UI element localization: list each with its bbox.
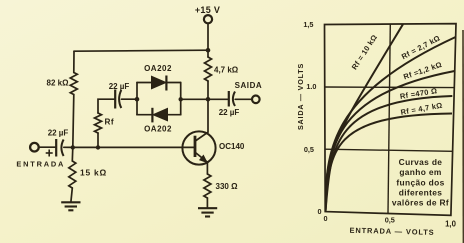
ground G1 (under 15k): [61, 202, 80, 210]
svg-text:SAIDA — VOLTS: SAIDA — VOLTS: [296, 63, 305, 130]
diode D2 OA202 (bottom, pointing left): [152, 108, 167, 123]
svg-text:22 µF: 22 µF: [219, 108, 240, 117]
resistor R 330: [204, 174, 211, 198]
svg-text:OC140: OC140: [219, 142, 245, 151]
wire node to output cap: [208, 98, 228, 100]
capacitor C top 22uF: [115, 90, 121, 109]
wire diode loop right bar: [180, 83, 182, 115]
svg-text:valôres de Rf: valôres de Rf: [392, 197, 449, 207]
svg-text:1,5: 1,5: [303, 20, 313, 29]
plus sign input polarity: [46, 150, 53, 157]
svg-text:diferentes: diferentes: [399, 187, 443, 197]
svg-text:15 kΩ: 15 kΩ: [80, 168, 107, 178]
svg-text:SAIDA: SAIDA: [235, 81, 263, 90]
svg-text:OA202: OA202: [144, 64, 172, 73]
terminal ENTRADA: [30, 143, 39, 152]
wire emitter to 330: [196, 153, 207, 174]
wire collector: [196, 99, 208, 140]
resistor R 82k: [70, 73, 77, 95]
svg-text:Rf: Rf: [105, 118, 115, 127]
capacitor C output 22uF: [229, 91, 235, 107]
wire +15V lead: [207, 23, 209, 50]
svg-text:1.0: 1.0: [306, 82, 316, 91]
ground G2 (under 330): [198, 208, 217, 216]
terminal +15V: [204, 15, 212, 23]
svg-text:ganho em: ganho em: [399, 167, 441, 177]
svg-text:22 µF: 22 µF: [109, 82, 130, 91]
transistor Q OC140: [182, 131, 215, 164]
svg-text:0,5: 0,5: [304, 145, 314, 154]
wire output cap to terminal: [235, 98, 252, 100]
wire 82k to base node: [73, 95, 74, 148]
graph plot border: [325, 24, 457, 216]
svg-text:função dos: função dos: [396, 177, 444, 187]
svg-text:0: 0: [317, 207, 321, 216]
svg-text:0,5: 0,5: [385, 216, 395, 225]
junction dot base node: [71, 145, 75, 149]
annotation box text Curvas de ganho: [392, 157, 449, 208]
svg-text:4,7 kΩ: 4,7 kΩ: [214, 66, 239, 75]
curve Rf 1,2k: [326, 71, 455, 212]
svg-text:330 Ω: 330 Ω: [216, 182, 239, 191]
wire diode bottom branch right: [168, 114, 181, 116]
wire diode top branch right: [167, 82, 181, 84]
wire diode loop to collector node: [181, 98, 208, 100]
svg-text:+15 V: +15 V: [195, 5, 220, 15]
svg-text:82 kΩ: 82 kΩ: [47, 79, 70, 88]
svg-text:OA202: OA202: [144, 125, 172, 134]
wire Rf top to cap: [98, 99, 114, 113]
curve Rf 4,7k: [326, 114, 453, 212]
wire 330 to ground: [206, 198, 208, 208]
junction dot diode loop left: [135, 97, 140, 102]
resistor R 15k: [69, 161, 76, 188]
curve Rf 470: [326, 96, 453, 212]
graph gridline horizontal 0,5: [325, 149, 453, 151]
svg-text:1,0: 1,0: [445, 219, 457, 228]
wire 4.7k top lead: [207, 50, 209, 57]
wire top cap to diode loop: [122, 98, 138, 100]
wire top rail: [74, 50, 208, 51]
junction dot collector node: [206, 97, 211, 102]
wire diode bottom branch left: [137, 114, 153, 116]
wire input terminal to cap: [39, 146, 55, 148]
junction dot Rf node: [96, 145, 100, 149]
svg-text:0: 0: [323, 214, 327, 223]
graph gridline horizontal 1.0: [325, 86, 455, 89]
diode D1 OA202 (top, pointing right): [152, 76, 167, 91]
junction dot diode loop right: [179, 97, 183, 101]
wire 4.7k to collector node: [207, 81, 209, 99]
terminal SAIDA: [252, 96, 260, 104]
resistor Rf: [95, 113, 102, 133]
wire base: [73, 146, 194, 148]
curve Rf 2,7k: [326, 37, 456, 212]
page edge dark line right: [462, 30, 464, 243]
svg-text:ENTRADA: ENTRADA: [16, 160, 65, 169]
graph gridline vertical 0,5: [388, 24, 390, 213]
wire Rf bottom lead: [97, 133, 99, 147]
wire diode loop left bar: [136, 83, 138, 115]
wire diode top branch left: [137, 82, 152, 84]
capacitor C input 22uF: [56, 139, 63, 157]
curve Rf 10k: [326, 24, 404, 211]
wire base node to 15k: [71, 147, 74, 161]
wire input cap to base node: [64, 146, 73, 148]
junction dot supply rail: [206, 48, 211, 53]
wire 82k top lead: [73, 51, 75, 72]
resistor R 4.7k: [205, 57, 212, 81]
svg-text:22 µF: 22 µF: [48, 129, 69, 138]
svg-text:Curvas de: Curvas de: [399, 157, 443, 167]
wire 15k to ground: [71, 188, 72, 202]
